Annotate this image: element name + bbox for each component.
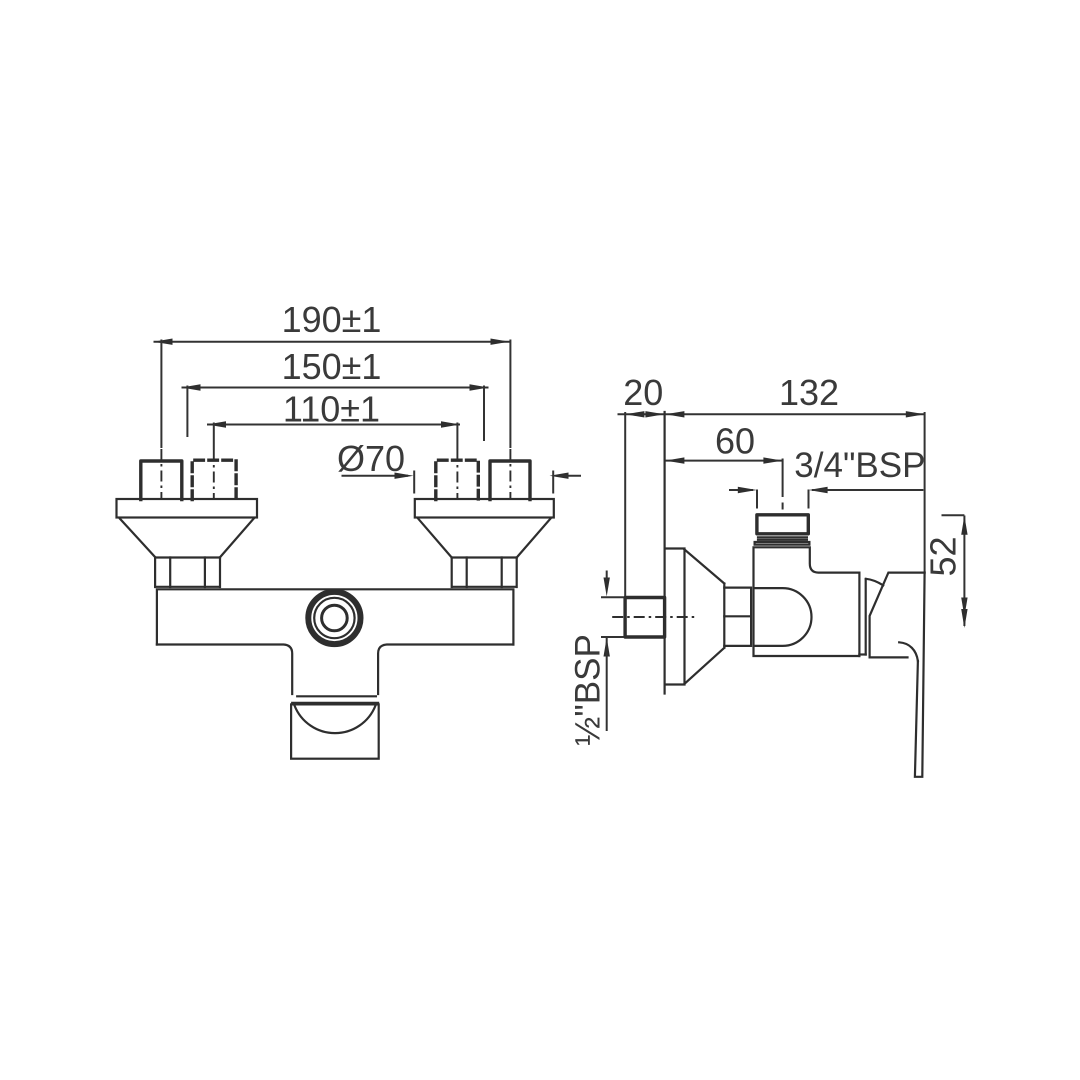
1/2 BSP leader line — [606, 638, 608, 732]
dimension 20/132 line — [618, 413, 926, 415]
dimension 52 bottom arrows — [961, 598, 967, 629]
dimension 52 line — [963, 516, 965, 627]
right escutcheon cone — [418, 519, 550, 558]
centerline left dashed union — [213, 450, 215, 500]
3/4 BSP right arrow — [809, 487, 828, 493]
left dashed inlet nipple (alternate position) — [192, 460, 236, 499]
dimension 110±1 left arrow — [207, 421, 226, 427]
dimension 132 right arrow — [906, 411, 925, 417]
escutcheon cone side — [685, 550, 725, 684]
svg-text:3/4"BSP: 3/4"BSP — [794, 446, 925, 485]
wall line — [663, 412, 665, 694]
dimension 190±1 line — [154, 341, 511, 343]
wall screw boss outer ring — [308, 592, 360, 644]
handle inner curve — [899, 642, 918, 661]
svg-text:132: 132 — [779, 372, 839, 413]
dimension Ø70 right arrow — [550, 473, 569, 479]
dimension Ø70 right tick — [552, 471, 554, 494]
dimension 150±1 left extension line — [186, 386, 188, 438]
supply nipple top arrow — [604, 578, 610, 597]
svg-text:190±1: 190±1 — [282, 299, 382, 340]
cartridge cover outline — [870, 573, 925, 658]
dimension 52 top tick — [942, 514, 965, 516]
left escutcheon cone — [120, 519, 254, 558]
outlet hose nut dome arc — [295, 706, 376, 734]
dimension Ø70 left tick — [413, 471, 415, 494]
supply nipple bottom arrow — [604, 638, 610, 657]
outlet collar line 2 — [292, 702, 378, 704]
body bottom edge with neck — [157, 645, 514, 695]
dimension 190±1 left extension line — [160, 340, 162, 449]
supply nipple top tick — [601, 596, 624, 598]
dimension Ø70 leader line left — [342, 475, 409, 477]
wall screw boss inner ring — [322, 605, 348, 631]
supply nipple 1/2 BSP — [625, 598, 665, 638]
right union nut — [452, 558, 517, 588]
left union nut — [155, 558, 220, 588]
dimension 150±1 left arrow — [182, 384, 201, 390]
dimension Ø70 leader line right — [560, 475, 581, 477]
3/4 BSP left arrow — [738, 487, 757, 493]
dimension 132 left arrow — [665, 411, 684, 417]
escutcheon plate side — [665, 549, 685, 685]
3/4 BSP dimension line to text — [812, 489, 923, 491]
cover fillet arc — [866, 579, 883, 586]
valve body side — [754, 547, 860, 656]
dimension 60 left arrow — [665, 457, 684, 463]
3/4 BSP left tick — [756, 490, 758, 509]
seam bottom tick — [859, 653, 865, 655]
shower pipe collar — [755, 542, 810, 545]
dimension 20 left extension line — [624, 412, 626, 596]
dimension 52 top arrow — [961, 516, 967, 535]
shower pipe cap 3/4 BSP — [757, 515, 808, 534]
svg-text:60: 60 — [715, 421, 755, 462]
dimension 150±1 right arrow — [470, 384, 489, 390]
body/cover seam line 2 — [865, 579, 867, 655]
dimension 20 right arrow — [645, 411, 664, 417]
mixer body front — [157, 589, 514, 644]
outlet collar line 1 — [297, 695, 376, 697]
supply nipple centerline — [612, 616, 695, 618]
dimension 150±1 right extension line — [483, 386, 485, 442]
svg-text:½"BSP: ½"BSP — [569, 634, 608, 746]
wall screw boss middle ring — [314, 598, 354, 638]
dimension 110±1 left extension line — [213, 423, 215, 451]
dimension Ø70 left arrow — [395, 473, 414, 479]
svg-text:110±1: 110±1 — [283, 389, 380, 430]
dimension 150±1 line — [182, 387, 489, 389]
shower pipe thread relief — [758, 537, 807, 539]
left solid inlet nipple — [141, 461, 182, 500]
dimension 110±1 right arrow — [441, 421, 460, 427]
dimension 60 right arrow — [763, 457, 782, 463]
right escutcheon flange plate — [415, 499, 554, 518]
centerline right solid union — [509, 449, 511, 500]
centerline right dashed union — [456, 450, 458, 500]
left escutcheon flange plate — [117, 499, 258, 518]
outlet hose nut — [291, 704, 379, 758]
right dashed inlet nipple (alternate position) — [436, 460, 479, 499]
body/cover seam line 1 — [858, 573, 860, 656]
shower pipe centerline extension — [782, 459, 784, 510]
supply nipple bottom tick — [601, 636, 624, 638]
dimension 190±1 left arrow — [154, 339, 173, 345]
dimension 110±1 line — [207, 424, 460, 426]
dimension 110±1 right extension line — [456, 423, 458, 451]
svg-text:150±1: 150±1 — [282, 346, 382, 387]
3/4 BSP dimension left tail — [729, 489, 753, 491]
3/4 BSP right tick — [808, 490, 810, 509]
supply nipple top arrow tail — [606, 571, 608, 581]
dimension 60 line — [665, 460, 783, 462]
dimension 20 left arrow — [625, 411, 644, 417]
centerline left solid union — [160, 449, 162, 500]
dimension 132 right extension line — [924, 412, 926, 573]
dimension 190±1 right extension line — [509, 340, 511, 449]
right solid inlet nipple — [490, 461, 530, 500]
dimension 190±1 right arrow — [491, 339, 510, 345]
svg-text:20: 20 — [623, 372, 663, 413]
svg-text:52: 52 — [923, 536, 964, 576]
handle lever — [915, 573, 925, 777]
union nut side — [724, 588, 751, 646]
outlet boss dome side — [754, 588, 812, 646]
